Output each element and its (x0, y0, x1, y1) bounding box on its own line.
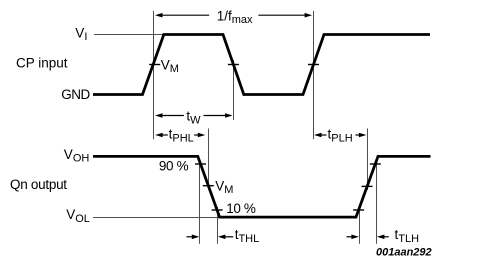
dimension tW right segment with arrowhead (204, 113, 233, 118)
dimension tPLH left arrow (314, 133, 327, 138)
svg-text:90 %: 90 % (159, 158, 189, 173)
vertical cursor at Qn rising edge 10% (359, 207, 361, 244)
dimension 1/fmax left segment with arrowhead (155, 13, 209, 18)
dimension tPHL right arrow (194, 133, 205, 138)
tick 10% on Qn falling edge (212, 209, 223, 211)
tick 90% on Qn falling edge (195, 163, 206, 165)
svg-text:VOL: VOL (66, 207, 90, 225)
vertical cursor at Qn falling edge 10% (217, 207, 219, 244)
VOL reference line (93, 217, 220, 219)
svg-text:tTHL: tTHL (235, 227, 260, 245)
dimension tPHL left arrow (155, 133, 168, 138)
svg-text:tPLH: tPLH (328, 126, 353, 144)
dimension tW left segment with arrowhead (155, 113, 184, 118)
tick 90% on Qn rising edge (370, 163, 381, 165)
dimension tTHL left outside arrow (187, 235, 200, 240)
svg-text:VM: VM (161, 57, 179, 75)
svg-text:GND: GND (61, 87, 90, 102)
svg-text:10 %: 10 % (226, 201, 256, 216)
dimension tPLH right arrow (356, 133, 367, 138)
vertical cursor at CP rising edge 1 (153, 11, 155, 139)
tick VM on CP rising edge 2 (308, 64, 319, 66)
vertical cursor at CP falling edge (233, 60, 235, 120)
vertical cursor at Qn rising edge 90% (376, 163, 378, 244)
svg-text:tTLH: tTLH (395, 227, 420, 245)
svg-text:VM: VM (215, 179, 233, 197)
svg-text:tW: tW (186, 109, 201, 127)
tick VM on CP rising edge 1 (149, 64, 160, 66)
svg-text:001aan292: 001aan292 (376, 247, 432, 259)
tick VM on Qn falling edge (203, 185, 214, 187)
CP input waveform (93, 35, 430, 95)
Qn output waveform (93, 156, 431, 217)
dimension tTLH left outside arrow (347, 235, 359, 240)
tick VM on Qn rising edge (362, 185, 373, 187)
tick VM on CP falling edge (228, 64, 239, 66)
dimension tTLH right outside arrow (377, 235, 389, 240)
dimension 1/fmax right segment with arrowhead (258, 13, 312, 18)
vertical cursor at Qn falling edge 90% (199, 163, 201, 244)
tick 10% on Qn rising edge (353, 209, 364, 211)
svg-text:tPHL: tPHL (169, 126, 194, 144)
dimension tTHL right outside arrow (218, 235, 233, 240)
VI reference line (94, 34, 165, 36)
vertical cursor at CP rising edge 2 (313, 11, 315, 139)
svg-text:1/fmax: 1/fmax (217, 9, 253, 27)
vertical cursor at Qn falling edge VM (208, 129, 210, 191)
svg-text:VI: VI (75, 25, 87, 43)
vertical cursor at Qn rising edge VM (367, 129, 369, 191)
svg-text:VOH: VOH (64, 147, 90, 165)
svg-text:CP input: CP input (16, 55, 68, 70)
svg-text:Qn output: Qn output (10, 177, 67, 192)
